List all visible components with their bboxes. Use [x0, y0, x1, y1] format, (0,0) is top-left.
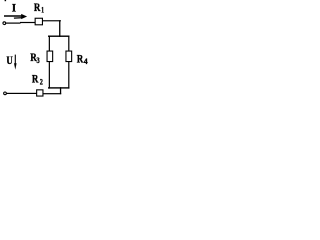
- resistor R1 box: [35, 18, 42, 25]
- wire left branch lower: [49, 62, 50, 89]
- wire top drop: [59, 20, 60, 37]
- terminal circle bottom-left: [4, 92, 7, 95]
- voltage arrow U: head down: [14, 63, 17, 70]
- svg-text:R: R: [77, 51, 84, 65]
- svg-text:4: 4: [84, 56, 89, 66]
- wire bottom left segment: [7, 93, 37, 94]
- wire bottom bar: [48, 87, 69, 88]
- svg-text:2: 2: [40, 76, 43, 86]
- svg-text:R: R: [32, 72, 39, 86]
- wire left branch upper: [49, 36, 50, 52]
- svg-text:R: R: [34, 0, 41, 14]
- wire top bar: [48, 36, 69, 37]
- svg-text:U: U: [6, 55, 13, 67]
- wire top-right: [43, 20, 61, 21]
- current arrow I: lower barb: [14, 17, 22, 19]
- terminal circle top-left: [3, 22, 6, 25]
- resistor R3 box: [47, 51, 53, 62]
- wire bottom right segment: [43, 93, 61, 94]
- artifact dot top edge: [5, 0, 7, 1]
- voltage arrow U: shaft: [15, 55, 16, 66]
- current arrow I: shaft: [4, 15, 23, 17]
- resistor R2 box: [37, 90, 43, 96]
- svg-text:1: 1: [41, 5, 44, 15]
- wire top-left: [6, 23, 21, 24]
- background: [0, 0, 94, 108]
- resistor R4 box: [66, 51, 72, 62]
- wire right branch lower: [68, 62, 69, 89]
- wire right branch upper: [68, 36, 69, 52]
- wire bottom drop: [60, 87, 61, 94]
- svg-text:I: I: [12, 3, 17, 15]
- svg-text:3: 3: [37, 55, 40, 65]
- current arrow I: solid head: [21, 14, 27, 19]
